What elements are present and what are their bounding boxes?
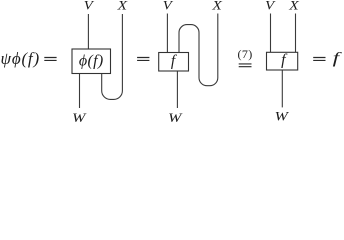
svg-text:X: X	[211, 0, 222, 12]
svg-text:W: W	[168, 111, 183, 124]
svg-text:ϕ(f): ϕ(f)	[79, 53, 104, 70]
svg-text:ψϕ(f): ψϕ(f)	[1, 49, 40, 68]
svg-text:W: W	[72, 111, 87, 124]
svg-text:W: W	[275, 110, 290, 124]
svg-text:X: X	[288, 0, 299, 12]
svg-text:X: X	[116, 0, 127, 12]
svg-text:(7): (7)	[237, 47, 252, 61]
